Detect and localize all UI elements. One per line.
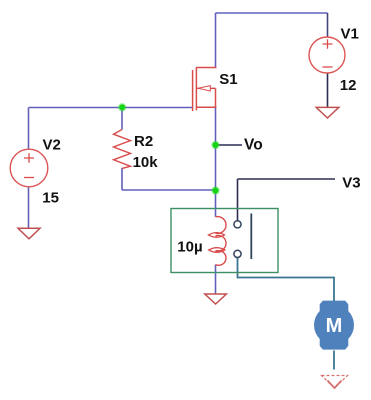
motor M <box>314 301 354 350</box>
wire V1 bottom vertical <box>327 73 329 107</box>
resistor R2 <box>114 130 131 169</box>
svg-text:V2: V2 <box>43 136 61 153</box>
transistor S1 (MOSFET) gate bar <box>192 70 194 111</box>
relay box <box>171 209 278 273</box>
node junction dot (gate/R2) <box>118 103 127 112</box>
wire source vertical (source to coil) <box>215 107 217 216</box>
ground (coil) <box>205 294 227 304</box>
V2 minus sign <box>24 177 34 179</box>
wire coil to ground <box>215 265 217 294</box>
ground (V1) <box>316 107 339 118</box>
ground (V2) <box>18 228 40 239</box>
wire switch to motor <box>238 258 335 301</box>
switch contact bottom <box>234 250 241 257</box>
wire V2 bottom vertical <box>28 187 30 228</box>
svg-text:R2: R2 <box>134 133 153 150</box>
wire R2 bottom vertical <box>121 168 123 190</box>
S1 drain stub <box>196 67 216 69</box>
V1 plus sign <box>323 39 333 49</box>
switch contact top <box>234 221 241 228</box>
svg-text:S1: S1 <box>219 71 237 88</box>
wire V1 top vertical <box>327 13 329 37</box>
wire motor to ground <box>333 351 335 370</box>
V2 plus sign <box>24 153 34 163</box>
wire R2 bottom horizontal <box>122 189 216 191</box>
svg-text:V1: V1 <box>341 25 359 42</box>
node junction dot (Vo) <box>211 141 220 150</box>
switch blade <box>250 214 252 260</box>
S1 source stub <box>196 106 216 108</box>
node junction dot (bottom) <box>211 186 220 195</box>
ground (motor, faded) <box>322 376 348 389</box>
wire Vo stub <box>218 144 242 146</box>
S1 channel bar <box>195 67 197 110</box>
svg-text:Vo: Vo <box>244 137 263 154</box>
inductor coil 10u <box>216 217 226 234</box>
voltage source V1 <box>309 37 345 73</box>
wire V3 vertical <box>237 179 239 221</box>
wire drain vertical <box>215 13 217 67</box>
svg-text:10µ: 10µ <box>177 238 202 255</box>
S1 body stub with arrow <box>196 87 215 89</box>
wire V3 horizontal <box>238 178 336 180</box>
wire gate horizontal (V2 to gate) <box>29 107 193 109</box>
svg-text:M: M <box>326 315 343 337</box>
svg-text:V3: V3 <box>342 174 360 191</box>
wire top horizontal (drain to V1) <box>216 12 328 14</box>
svg-text:15: 15 <box>42 189 59 206</box>
wire V2 top vertical <box>28 108 30 150</box>
wire R2 top vertical <box>121 108 123 130</box>
voltage source V2 <box>10 149 48 187</box>
V1 minus sign <box>323 66 333 68</box>
S1 body-source link <box>215 88 217 107</box>
svg-text:12: 12 <box>340 77 357 94</box>
svg-text:10k: 10k <box>133 154 159 171</box>
